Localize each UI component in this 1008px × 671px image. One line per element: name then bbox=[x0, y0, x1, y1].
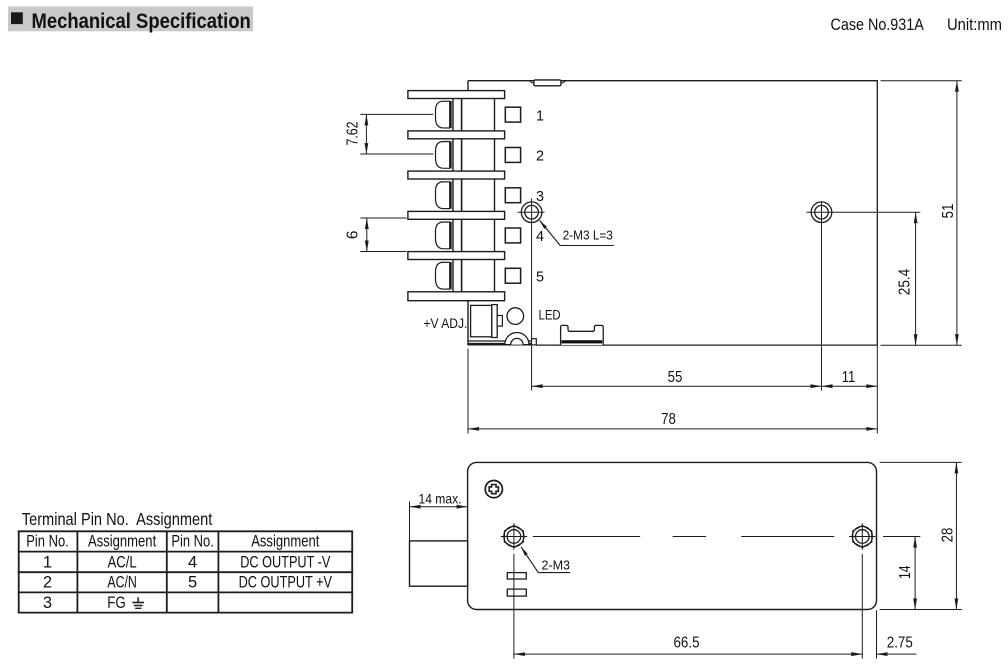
terminal separator bar 6 bbox=[408, 292, 505, 301]
svg-text:LED: LED bbox=[539, 308, 561, 324]
small notch at bottom edge bbox=[532, 339, 537, 345]
terminal separator bar 2 bbox=[408, 131, 505, 139]
28/14 dim extension line bottom bbox=[880, 609, 962, 611]
hole 2 centerline horizontal / extension to 25.4 dim bbox=[807, 211, 921, 213]
svg-text:AC/N: AC/N bbox=[107, 574, 137, 592]
clamp square pin 2 bbox=[505, 148, 520, 163]
dim 2.75 outside arrows bbox=[851, 652, 916, 656]
svg-text:5: 5 bbox=[188, 574, 197, 592]
clamp square pin 4 bbox=[505, 228, 520, 243]
dim 11 line and arrows bbox=[822, 384, 878, 388]
terminal screw 1 (D shape) bbox=[436, 101, 451, 128]
dim 7.62 extension lines bbox=[360, 114, 433, 154]
dim 7.62 line and arrows bbox=[365, 114, 369, 154]
top view case outline bbox=[468, 80, 877, 346]
top cover latch tab bbox=[530, 80, 566, 86]
dim 28 line and arrows bbox=[955, 462, 959, 609]
dim 6 line and arrows bbox=[365, 218, 369, 252]
svg-text:DC OUTPUT +V: DC OUTPUT +V bbox=[239, 574, 332, 592]
ground symbol FG bbox=[132, 597, 144, 608]
28 dim extension line top bbox=[880, 461, 962, 463]
terminal block body line right bbox=[494, 91, 496, 301]
svg-text:5: 5 bbox=[536, 270, 544, 286]
bottom view case outline bbox=[468, 462, 877, 609]
clamp square pin 5 bbox=[505, 268, 520, 283]
svg-text:2-M3: 2-M3 bbox=[542, 557, 571, 572]
svg-text:Terminal Pin No. Assignment: Terminal Pin No. Assignment bbox=[22, 509, 213, 529]
terminal screw 5 (D shape) bbox=[436, 262, 451, 289]
svg-text:25.4: 25.4 bbox=[897, 269, 914, 296]
bottom flange lines left bbox=[468, 341, 532, 344]
mounting hole M3 #1 (top view) bbox=[521, 202, 542, 223]
svg-text:6: 6 bbox=[345, 230, 362, 239]
dim 14 line and arrows bbox=[913, 537, 917, 610]
svg-text:2: 2 bbox=[43, 574, 52, 592]
svg-text:Case No.931A: Case No.931A bbox=[831, 15, 925, 34]
svg-text:51: 51 bbox=[940, 204, 957, 219]
dim 78 line and arrows bbox=[468, 427, 877, 431]
svg-text:28: 28 bbox=[939, 528, 956, 543]
66.5 dim extension line left bbox=[513, 554, 515, 659]
header black square bullet bbox=[11, 12, 23, 24]
51/25.4 dim extension line bottom bbox=[881, 344, 962, 346]
svg-text:3: 3 bbox=[536, 189, 544, 205]
svg-text:2.75: 2.75 bbox=[887, 634, 913, 651]
vent slot 1 bbox=[507, 573, 526, 579]
dome half-annulus at bottom edge bbox=[505, 333, 529, 345]
svg-text:Mechanical Specification: Mechanical Specification bbox=[32, 9, 251, 33]
svg-text:Pin No.: Pin No. bbox=[26, 533, 69, 551]
svg-text:11: 11 bbox=[842, 369, 856, 386]
terminal separator bar 3 bbox=[408, 171, 505, 179]
svg-text:Pin No.: Pin No. bbox=[171, 533, 214, 551]
LED indicator circle bbox=[507, 308, 524, 325]
66.5 dim extension line right bbox=[861, 554, 863, 659]
svg-text:Assignment: Assignment bbox=[251, 533, 320, 551]
phillips screw (bottom view) bbox=[485, 481, 502, 498]
svg-text:Assignment: Assignment bbox=[88, 533, 157, 551]
svg-text:4: 4 bbox=[536, 229, 544, 245]
51 dim extension line top bbox=[881, 80, 962, 82]
terminal pin assignment table grid bbox=[18, 531, 353, 612]
left hex screw centerline cross bbox=[501, 523, 528, 550]
terminal separator bar 1 bbox=[408, 91, 505, 99]
terminal block body line left bbox=[452, 91, 454, 301]
svg-text:1: 1 bbox=[43, 554, 52, 572]
dim 14 max. extension line bbox=[409, 502, 411, 541]
svg-text:78: 78 bbox=[661, 411, 676, 428]
terminal separator bar 4 bbox=[408, 211, 505, 219]
dim 14 max. line and arrows bbox=[410, 505, 468, 509]
78/11 dim extension line right bbox=[876, 346, 878, 434]
terminal screw 2 (D shape) bbox=[436, 141, 451, 168]
vent slot 2 bbox=[507, 589, 526, 596]
svg-text:+V ADJ.: +V ADJ. bbox=[424, 316, 468, 332]
svg-text:FG: FG bbox=[107, 594, 126, 612]
output connector at bottom edge bbox=[561, 325, 604, 345]
svg-text:2: 2 bbox=[536, 149, 544, 165]
leader line 2-M3 L=3 bbox=[538, 219, 614, 245]
leader line 2-M3 (bottom view) bbox=[519, 546, 570, 573]
svg-text:4: 4 bbox=[188, 554, 197, 572]
potentiometer +V ADJ bbox=[471, 305, 503, 338]
terminal screw 4 (D shape) bbox=[436, 222, 451, 249]
dim 14 extension line bbox=[883, 536, 920, 538]
svg-text:Unit:mm: Unit:mm bbox=[947, 15, 1002, 34]
78 dim extension line left bbox=[467, 349, 469, 434]
hex mounting screw right (bottom view) bbox=[852, 526, 872, 548]
hole 1 centerline horizontal bbox=[518, 211, 545, 213]
dim 51 line and arrows bbox=[955, 81, 959, 346]
svg-text:AC/L: AC/L bbox=[108, 554, 137, 572]
dim 55 line and arrows bbox=[532, 384, 822, 388]
hole 2 centerline vertical / extension to 55 dim bbox=[821, 202, 823, 391]
svg-text:66.5: 66.5 bbox=[674, 634, 700, 651]
svg-text:55: 55 bbox=[668, 369, 683, 386]
section header gray bar bbox=[8, 7, 253, 32]
svg-text:DC OUTPUT -V: DC OUTPUT -V bbox=[240, 554, 330, 572]
svg-text:1: 1 bbox=[536, 108, 544, 124]
dim 25.4 line and arrows bbox=[914, 212, 918, 345]
svg-text:7.62: 7.62 bbox=[345, 121, 362, 145]
clamp square pin 3 bbox=[505, 188, 520, 203]
clamp square pin 1 bbox=[505, 107, 520, 122]
terminal separator bar 5 bbox=[408, 252, 505, 260]
dim 66.5 line and arrows bbox=[514, 652, 862, 656]
2.75 dim extension line bbox=[876, 610, 878, 658]
svg-text:2-M3 L=3: 2-M3 L=3 bbox=[563, 229, 613, 243]
svg-text:14 max.: 14 max. bbox=[419, 491, 462, 506]
hole 1 centerline vertical / extension to 55 dim bbox=[531, 199, 533, 391]
AC input block (left protrusion) bbox=[410, 541, 468, 586]
terminal screw 3 (D shape) bbox=[436, 182, 451, 209]
svg-text:3: 3 bbox=[43, 594, 52, 612]
mounting hole M3 #2 (top view) bbox=[811, 202, 832, 223]
dim 6 extension lines bbox=[360, 218, 406, 252]
right hex screw centerline cross bbox=[849, 523, 875, 550]
terminal block body line mid bbox=[461, 91, 463, 301]
hex mounting screw left (bottom view) bbox=[504, 526, 524, 548]
svg-text:14: 14 bbox=[897, 565, 914, 579]
center dash line between screws bbox=[533, 536, 835, 538]
